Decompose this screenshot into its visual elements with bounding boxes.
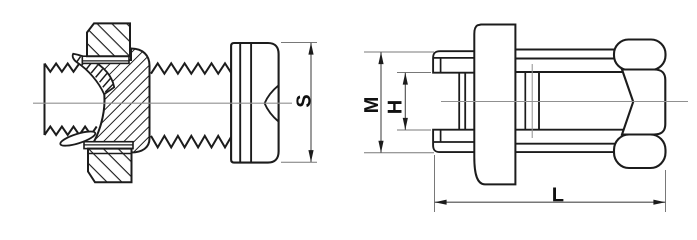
wire left edge bbox=[44, 64, 46, 136]
bolt thread bottom zigzag bbox=[151, 136, 232, 148]
centerline right view horizontal bbox=[441, 101, 688, 103]
window bottom line bbox=[515, 129, 624, 131]
dim S arrow bottom bbox=[308, 150, 313, 162]
top washer bbox=[82, 56, 129, 63]
dim S extension bottom bbox=[281, 161, 317, 163]
dim H line bbox=[404, 73, 406, 130]
centerline right view vertical bbox=[531, 64, 533, 138]
bottom bar bbox=[433, 130, 477, 152]
body top rail 1 bbox=[515, 49, 615, 51]
top bar mid line bbox=[434, 57, 477, 59]
centerline left view bbox=[33, 102, 292, 104]
bolt head face line 2 bbox=[250, 43, 252, 163]
wire top strands (zigzag) bbox=[45, 64, 80, 72]
window left vertical 2 bbox=[538, 72, 540, 130]
wire bottom strands (zigzag) bbox=[45, 127, 97, 136]
dim H extension top bbox=[397, 72, 431, 74]
dim H extension bottom bbox=[397, 129, 431, 131]
dim L line bbox=[435, 201, 666, 203]
head bottom lobe bbox=[614, 135, 666, 169]
body bottom rail 2 bbox=[515, 151, 615, 153]
body top rail 2 bbox=[515, 58, 616, 60]
bolt head face line 1 bbox=[239, 43, 241, 163]
top washer inner line bbox=[82, 60, 129, 62]
window left vertical 1 bbox=[524, 72, 526, 130]
head top lobe bbox=[614, 40, 666, 71]
dim L extension left bbox=[434, 155, 436, 212]
upper jaw hatch ticks bbox=[77, 57, 114, 92]
dim M arrow top bbox=[378, 52, 383, 64]
bottom nut top face line bbox=[88, 153, 132, 155]
clamp body (hatched section) bbox=[92, 49, 150, 153]
shank line 1 bbox=[458, 73, 460, 130]
dim M arrow bottom bbox=[378, 141, 383, 153]
dim L extension right bbox=[665, 170, 667, 212]
shank line 2 bbox=[464, 73, 466, 130]
dim H arrow bottom bbox=[403, 118, 408, 130]
top nut (hatched) bbox=[87, 23, 130, 56]
dim L arrow right bbox=[653, 200, 665, 205]
label S bbox=[296, 95, 310, 107]
bottom washer inner line bbox=[84, 144, 133, 146]
window top line bbox=[515, 71, 624, 73]
dim S line bbox=[310, 43, 312, 162]
dim L arrow left bbox=[435, 200, 447, 205]
bottom bar end cap line bbox=[440, 130, 442, 142]
label M bbox=[364, 98, 378, 112]
head middle band with chevron bbox=[622, 70, 665, 135]
body bottom rail 1 bbox=[515, 143, 616, 145]
bottom nut (hatched) bbox=[88, 149, 132, 183]
bolt head bbox=[231, 43, 279, 163]
dim S extension top bbox=[281, 42, 317, 44]
dim M extension bottom bbox=[364, 152, 434, 154]
label H bbox=[388, 101, 402, 113]
bolt head chevron bbox=[265, 85, 279, 121]
lower jaw (ellipse) bbox=[59, 129, 97, 149]
dim S arrow top bbox=[308, 43, 313, 55]
top bar bbox=[433, 51, 477, 72]
nut (side view column) bbox=[474, 25, 515, 185]
dim H arrow top bbox=[403, 73, 408, 85]
bolt thread top zigzag bbox=[151, 63, 232, 73]
top bar end cap line bbox=[440, 58, 442, 73]
upper jaw (beak) bbox=[73, 54, 115, 94]
label L bbox=[553, 187, 563, 201]
dim M line bbox=[380, 52, 382, 152]
dim M extension top bbox=[364, 51, 434, 53]
bottom bar mid line bbox=[434, 141, 477, 143]
bottom washer bbox=[84, 142, 133, 149]
